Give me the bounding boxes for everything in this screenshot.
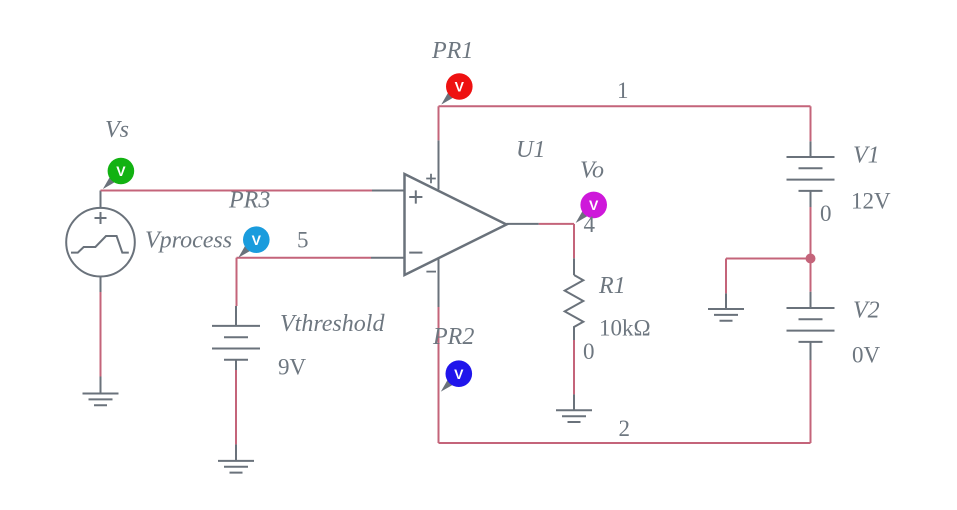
svg-text:Vs: Vs (105, 117, 129, 143)
svg-text:Vthreshold: Vthreshold (280, 311, 385, 337)
battery Vthreshold (212, 326, 260, 360)
svg-text:2: 2 (619, 416, 631, 441)
ground (mid, between batteries) (708, 309, 744, 321)
svg-text:V: V (454, 366, 464, 382)
wire: V2 bottom pin (gray) (810, 342, 812, 360)
junction node dot (806, 254, 816, 264)
svg-text:5: 5 (297, 228, 309, 253)
wire: V2 down and across bottom net 2 (red) (439, 360, 811, 443)
svg-text:PR1: PR1 (431, 38, 473, 64)
wire: Vthreshold top pin (gray) (235, 306, 237, 326)
wire: V1 top pin (gray) (810, 141, 812, 157)
wire: Vs top pin (gray) (100, 191, 102, 209)
probe PR2 (blue) (442, 360, 473, 390)
wire: Vthreshold to ground (red) (235, 370, 237, 444)
svg-text:9V: 9V (278, 355, 307, 380)
wire: ground pin (gray) (235, 444, 237, 461)
svg-text:V: V (252, 232, 262, 248)
svg-text:Vo: Vo (580, 158, 604, 184)
svg-text:V: V (589, 197, 599, 213)
svg-text:V2: V2 (853, 298, 880, 324)
wire: junction to V2 (red) (810, 259, 812, 292)
wire: net 1 down to V1 (red) (810, 106, 812, 141)
ground (under Vs) (83, 394, 119, 406)
wire: op-amp output pin (gray) (507, 223, 539, 225)
probe Vo (magenta) (577, 192, 608, 223)
svg-text:PR3: PR3 (228, 188, 270, 214)
svg-text:4: 4 (584, 212, 596, 237)
wire: ground pin (gray) (100, 377, 102, 394)
op-amp supply + sign (426, 174, 436, 184)
wire: Vs to op-amp noninverting input (red) (101, 190, 373, 192)
ground (under Vthreshold) (218, 461, 254, 473)
wire: mid ground pin (gray) (725, 293, 727, 309)
wire: V1 to junction (red) (810, 207, 812, 259)
wire: R1 top pin (gray) (573, 258, 575, 275)
wire: Vprocess node down to Vthreshold (red) (236, 258, 238, 306)
svg-text:0: 0 (820, 201, 832, 226)
wire: Vs bottom pin (gray) (100, 277, 102, 293)
resistor R1 (zigzag) (565, 275, 584, 329)
wire: R1 bottom pin (gray) (573, 329, 575, 341)
wire: op-amp bottom supply pin (gray) (438, 259, 440, 307)
probe Vprocess (azure) (239, 226, 269, 257)
wire: R1 to ground (red) (573, 340, 575, 394)
wire: op-amp - input pin (gray) (371, 257, 405, 259)
svg-text:V: V (116, 163, 126, 179)
wire: V2 top pin (gray) (810, 292, 812, 308)
wire: net 1 horizontal to V1 (red) (439, 105, 811, 107)
svg-text:Vprocess: Vprocess (145, 228, 232, 254)
battery V1 (787, 157, 835, 191)
svg-text:0V: 0V (852, 343, 881, 368)
op-amp input + sign (409, 190, 422, 203)
wire: op-amp top supply pin (gray) (438, 140, 440, 189)
svg-text:V1: V1 (853, 143, 880, 169)
svg-text:12V: 12V (851, 189, 891, 214)
svg-text:1: 1 (617, 78, 629, 103)
probe Vs (green) (104, 158, 135, 189)
op-amp input - sign (409, 252, 422, 254)
wire: ground pin (gray) (573, 394, 575, 410)
wire: Vthreshold bottom pin (gray) (235, 360, 237, 370)
ground (under R1) (556, 410, 592, 422)
svg-text:R1: R1 (598, 273, 626, 299)
wire: op-amp + input pin (gray) (372, 190, 405, 192)
wire: junction to mid ground (red) (726, 259, 811, 294)
op-amp U1 (comparator triangle) (405, 174, 507, 275)
svg-text:PR2: PR2 (432, 324, 474, 350)
svg-text:0: 0 (583, 339, 595, 364)
wire: Vprocess node to op-amp inverting input (red) (237, 257, 372, 259)
svg-text:10kΩ: 10kΩ (599, 316, 651, 341)
voltage source Vs (PWL source body) (66, 208, 135, 277)
battery V2 (787, 308, 835, 342)
svg-text:V: V (455, 79, 465, 95)
wire: V1 bottom pin (gray) (810, 191, 812, 207)
svg-text:U1: U1 (516, 137, 545, 163)
wire: Vs to ground (red) (100, 292, 102, 377)
wire: output to Vo node (red) (539, 224, 574, 258)
wire: bottom supply to net 2 (red) (438, 307, 440, 443)
wire: top supply to PR1 corner (red) (438, 106, 440, 140)
op-amp supply - sign (426, 271, 436, 273)
probe PR1 (red) (442, 73, 473, 104)
